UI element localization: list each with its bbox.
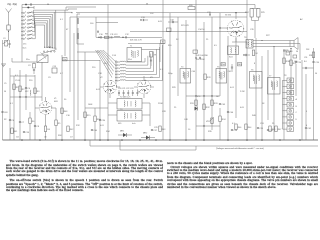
resistor R45 chassis row bbox=[269, 126, 271, 132]
svg-text:T8: T8 bbox=[244, 37, 247, 39]
wire aerial downlead bbox=[3, 34, 9, 44]
svg-text:MR2: MR2 bbox=[143, 133, 148, 135]
svg-text:50: 50 bbox=[4, 91, 6, 93]
resistor R26 bbox=[252, 50, 254, 56]
svg-text:C45: C45 bbox=[222, 104, 227, 106]
resistor R2 bbox=[19, 86, 21, 92]
wire v-left2 bbox=[13, 76, 15, 140]
coil L23 osc row bbox=[115, 71, 116, 72]
diode MR2 bbox=[146, 136, 150, 140]
svg-text:100: 100 bbox=[90, 23, 94, 25]
svg-text:1M: 1M bbox=[216, 96, 219, 98]
diode MR3 bbox=[195, 107, 198, 111]
svg-text:0.05: 0.05 bbox=[240, 107, 245, 109]
svg-text:C5 01: C5 01 bbox=[15, 80, 21, 82]
resistor R41 chassis row bbox=[11, 128, 13, 134]
wire V4 cathode bbox=[235, 37, 237, 42]
IF transformer T5 bbox=[216, 69, 227, 84]
svg-text:0.05: 0.05 bbox=[16, 137, 19, 139]
svg-text:C8: C8 bbox=[37, 126, 40, 128]
svg-text:C12: C12 bbox=[125, 34, 130, 36]
svg-text:465: 465 bbox=[118, 123, 122, 125]
svg-text:R3: R3 bbox=[37, 91, 40, 93]
svg-text:6K8: 6K8 bbox=[54, 101, 58, 103]
wire v-284 bbox=[283, 50, 285, 140]
wire v-left3 bbox=[19, 70, 21, 140]
svg-text:C16: C16 bbox=[66, 115, 71, 117]
voltage square 250 bbox=[221, 63, 225, 66]
coil L13 bbox=[114, 36, 120, 37]
svg-text:R12: R12 bbox=[76, 125, 81, 127]
capacitor C32 bbox=[172, 21, 174, 23]
coil L20 osc row bbox=[115, 61, 116, 62]
wire v-100 bbox=[99, 60, 101, 140]
junction on chassis 0 bbox=[21, 139, 23, 141]
svg-text:VR1: VR1 bbox=[206, 121, 211, 123]
svg-text:R15: R15 bbox=[87, 115, 92, 117]
junction on chassis 14 bbox=[261, 139, 263, 141]
capacitor C63 left border bbox=[1, 111, 3, 113]
svg-text:R25: R25 bbox=[261, 12, 266, 14]
svg-text:C53: C53 bbox=[260, 123, 265, 125]
svg-text:S1a: S1a bbox=[26, 59, 30, 61]
wire h-42b bbox=[246, 42, 248, 45]
svg-text:R4: R4 bbox=[47, 129, 50, 131]
capacitor C46 bbox=[227, 111, 229, 113]
svg-text:25: 25 bbox=[174, 107, 177, 109]
capacitor C14 bbox=[150, 59, 152, 61]
resistor R43 chassis row bbox=[159, 126, 161, 132]
choke box under V4 bbox=[228, 46, 239, 55]
svg-text:C42 100 R30: C42 100 R30 bbox=[196, 55, 209, 57]
capacitor C50 bbox=[295, 61, 297, 63]
wire V4 grid bbox=[220, 27, 227, 29]
svg-text:R46: R46 bbox=[238, 127, 241, 129]
coil L5 row bbox=[21, 27, 22, 28]
capacitor C10 bbox=[98, 37, 99, 38]
wire v-160 bbox=[159, 43, 161, 49]
wire grid rail bbox=[96, 22, 118, 24]
svg-text:R24: R24 bbox=[245, 12, 250, 14]
svg-text:C2: C2 bbox=[28, 65, 31, 67]
resistor R28 between cans bbox=[204, 74, 206, 80]
svg-text:0.1: 0.1 bbox=[15, 75, 18, 77]
svg-text:C61: C61 bbox=[270, 130, 273, 132]
wire h-108b bbox=[85, 107, 108, 109]
svg-text:C51: C51 bbox=[304, 57, 307, 59]
coil L22 osc row bbox=[115, 68, 116, 69]
wire v-212 bbox=[211, 17, 213, 130]
svg-text:R47: R47 bbox=[278, 129, 281, 131]
svg-text:AC: AC bbox=[300, 18, 303, 21]
svg-text:S1b: S1b bbox=[63, 59, 66, 61]
resistor R24 bbox=[250, 9, 253, 18]
capacitor C58 chassis row bbox=[231, 129, 233, 131]
wire V4 anode bbox=[235, 13, 237, 19]
svg-text:6: 6 bbox=[25, 26, 26, 28]
svg-text:2.2M: 2.2M bbox=[240, 91, 245, 93]
svg-text:C33: C33 bbox=[207, 12, 212, 14]
wire v-163 bbox=[162, 0, 164, 140]
svg-text:T2 465 kc/s: T2 465 kc/s bbox=[120, 97, 130, 99]
svg-text:kc/s: kc/s bbox=[132, 123, 136, 125]
capacitor C19 box bbox=[52, 68, 57, 73]
wire HT rail 2 bbox=[76, 12, 247, 14]
svg-text:12K: 12K bbox=[44, 137, 47, 139]
svg-text:R32: R32 bbox=[206, 107, 211, 109]
svg-text:R43: R43 bbox=[162, 129, 165, 131]
svg-text:100p: 100p bbox=[168, 73, 173, 75]
wire opt out 3 bbox=[253, 46, 290, 48]
svg-text:C5: C5 bbox=[4, 83, 6, 85]
wire v-204 bbox=[203, 22, 205, 140]
wire v-236 bbox=[235, 38, 237, 118]
svg-text:V4 6V6: V4 6V6 bbox=[225, 15, 231, 17]
svg-text:49 m: 49 m bbox=[23, 44, 27, 46]
antenna AE bbox=[6, 9, 12, 13]
coil L21 osc row bbox=[115, 65, 116, 66]
svg-text:25K: 25K bbox=[306, 49, 310, 51]
svg-text:C35: C35 bbox=[250, 29, 255, 31]
terminal strip TS1 bbox=[287, 78, 294, 83]
wire row2 continue bbox=[54, 11, 72, 14]
wire v-268 bbox=[267, 50, 269, 120]
wire top HT bus bbox=[22, 4, 255, 6]
svg-text:R39: R39 bbox=[285, 50, 288, 52]
resistor R37 bbox=[290, 60, 292, 66]
svg-text:6J8 220 4.7K: 6J8 220 4.7K bbox=[130, 40, 142, 42]
wire chassis drop a bbox=[89, 140, 91, 146]
svg-text:C50: C50 bbox=[298, 62, 303, 64]
svg-text:1.5K: 1.5K bbox=[112, 55, 117, 57]
resistor R16 bbox=[94, 116, 96, 122]
resistor R25 bbox=[257, 9, 260, 18]
svg-text:R20: R20 bbox=[189, 5, 194, 7]
junction on chassis 15 bbox=[279, 139, 281, 141]
svg-text:C18: C18 bbox=[98, 73, 103, 75]
svg-text:C10: C10 bbox=[99, 34, 104, 36]
svg-text:S2d: S2d bbox=[229, 57, 232, 59]
wire v-left6 bbox=[41, 62, 43, 101]
svg-text:220K: 220K bbox=[158, 103, 163, 105]
junction on chassis 8 bbox=[155, 139, 157, 141]
svg-text:C4: C4 bbox=[28, 88, 31, 90]
capacitor C62 chassis row bbox=[305, 127, 307, 129]
wire opt out 1 bbox=[253, 40, 290, 42]
junction on chassis 6 bbox=[121, 139, 123, 141]
svg-text:C30: C30 bbox=[102, 120, 107, 122]
svg-text:S2: S2 bbox=[176, 39, 179, 41]
svg-text:22K: 22K bbox=[150, 13, 154, 15]
svg-text:S2c 220K: S2c 220K bbox=[196, 59, 205, 61]
capacitor C56 chassis row bbox=[23, 131, 25, 133]
wire T1 out bbox=[142, 49, 161, 51]
resistor R3 bbox=[34, 88, 36, 94]
valve V2 bbox=[104, 81, 117, 94]
wire osc fan bbox=[103, 50, 116, 62]
wire v-74 bbox=[73, 33, 75, 140]
valve V4 bbox=[227, 20, 243, 36]
junction on chassis 10 bbox=[185, 139, 187, 141]
svg-text:C40: C40 bbox=[192, 71, 195, 73]
trimmer row1 bbox=[97, 31, 99, 33]
switch wafer S1b contacts bbox=[43, 51, 44, 52]
wire h-60 bbox=[62, 60, 100, 62]
coil L8 row bbox=[21, 38, 22, 39]
svg-text:9: 9 bbox=[25, 37, 26, 39]
svg-text:(Voltages measured with Avomet: (Voltages measured with Avometer model 7… bbox=[216, 147, 264, 150]
wire right border bbox=[313, 48, 315, 140]
IF transformer T2 bbox=[117, 99, 142, 110]
svg-text:47: 47 bbox=[66, 29, 69, 31]
svg-text:R31: R31 bbox=[190, 103, 195, 105]
svg-text:R14: R14 bbox=[106, 131, 111, 133]
resistor R32 bbox=[203, 104, 205, 110]
capacitor C11 bbox=[110, 36, 112, 38]
resistor R36 bbox=[283, 58, 285, 64]
junction on chassis 7 bbox=[139, 139, 141, 141]
resistor R5 bbox=[55, 120, 57, 126]
svg-text:R21 47K: R21 47K bbox=[181, 25, 189, 27]
capacitor C36 bbox=[243, 54, 244, 55]
junction on chassis 11 bbox=[203, 139, 205, 141]
resistor R15 bbox=[84, 112, 86, 118]
resistor R42 chassis row bbox=[67, 126, 69, 132]
IF transformer T3 bbox=[117, 111, 142, 122]
svg-text:C13: C13 bbox=[141, 17, 146, 19]
valve V1 bbox=[39, 102, 52, 115]
wire v-256 bbox=[255, 38, 257, 140]
capacitor C59 chassis row bbox=[257, 127, 259, 129]
junction on chassis 4 bbox=[99, 139, 101, 141]
wire AGC rail bbox=[70, 16, 247, 18]
capacitor C61 chassis row bbox=[267, 129, 269, 131]
wire HT feed mid bbox=[130, 31, 247, 33]
svg-text:R2: R2 bbox=[4, 119, 6, 121]
svg-text:0.1: 0.1 bbox=[10, 103, 14, 105]
wire v-70 bbox=[69, 17, 71, 92]
svg-text:S1b: S1b bbox=[48, 47, 51, 49]
svg-text:2: 2 bbox=[25, 12, 26, 14]
svg-text:C17: C17 bbox=[70, 137, 73, 139]
junction m1 bbox=[122, 37, 123, 38]
junction on chassis 1 bbox=[39, 139, 41, 141]
svg-text:C34 50: C34 50 bbox=[198, 29, 205, 31]
capacitor C57 chassis row bbox=[151, 129, 153, 131]
wire top link y7 bbox=[66, 6, 96, 8]
wire can links bbox=[108, 102, 117, 104]
svg-text:8.0: 8.0 bbox=[304, 61, 307, 63]
svg-text:50: 50 bbox=[64, 99, 67, 101]
svg-text:5: 5 bbox=[306, 111, 308, 113]
svg-text:D: D bbox=[296, 119, 298, 121]
volume control VR1 bbox=[211, 118, 213, 124]
svg-text:C20 C21 C22 C23: C20 C21 C22 C23 bbox=[118, 88, 133, 90]
wire v-228 bbox=[227, 36, 229, 140]
junction on chassis 5 bbox=[107, 139, 109, 141]
output transformer T8 bbox=[246, 40, 253, 49]
junction on chassis 3 bbox=[84, 139, 86, 141]
wire V1 pin d bbox=[52, 107, 56, 109]
wire V1 pin a bbox=[45, 97, 47, 102]
svg-text:R41: R41 bbox=[14, 131, 17, 133]
earth symbol E1 bbox=[1, 63, 6, 65]
voltage square 245 bbox=[238, 63, 242, 66]
coil L1 row bbox=[21, 12, 22, 13]
text column left bbox=[6, 160, 163, 193]
wire S1a stem bbox=[21, 5, 23, 63]
svg-text:R28: R28 bbox=[207, 77, 212, 79]
svg-text:C6: C6 bbox=[12, 120, 15, 122]
resistor R47 chassis row bbox=[275, 126, 277, 132]
svg-text:T5: T5 bbox=[217, 67, 220, 69]
resistor R38 on border bbox=[312, 52, 314, 58]
capacitor C4 bbox=[25, 87, 27, 89]
resistor R1 bbox=[13, 84, 15, 90]
svg-text:C: C bbox=[296, 112, 298, 114]
svg-text:C58: C58 bbox=[234, 130, 237, 132]
IF transformer T4 bbox=[180, 69, 191, 84]
coil L10 rf choke bbox=[76, 14, 78, 44]
wire x65 drop bbox=[64, 10, 66, 56]
wire v-196 bbox=[195, 0, 197, 140]
wire V2 pins bbox=[109, 94, 111, 99]
svg-text:R33: R33 bbox=[214, 103, 219, 105]
wire mixer rail bbox=[96, 36, 162, 38]
capacitor C45 bbox=[219, 103, 221, 105]
capacitor C52 bbox=[305, 67, 307, 69]
diode MR1 bbox=[123, 133, 127, 137]
svg-text:R42: R42 bbox=[70, 129, 73, 131]
resistor R44 chassis row bbox=[245, 124, 247, 130]
resistor R4 bbox=[44, 126, 46, 132]
wire v-291 bbox=[290, 48, 292, 96]
svg-text:T7: T7 bbox=[269, 76, 272, 78]
junction on chassis 13 bbox=[246, 139, 248, 141]
svg-text:6: 6 bbox=[306, 125, 308, 127]
wire v-left5 bbox=[34, 75, 36, 140]
svg-text:Gram: Gram bbox=[23, 47, 28, 50]
svg-text:C46: C46 bbox=[230, 112, 235, 114]
svg-text:10: 10 bbox=[188, 129, 191, 131]
small box S2b bbox=[167, 28, 172, 31]
svg-text:C59: C59 bbox=[260, 128, 263, 130]
wire return link bbox=[195, 146, 197, 150]
capacitor C6 bbox=[9, 119, 11, 121]
IF transformer T7 bbox=[268, 78, 281, 95]
svg-text:C9: C9 bbox=[48, 77, 51, 79]
wire v-186 bbox=[185, 20, 187, 140]
wire link h96 bbox=[10, 96, 42, 98]
svg-text:36: 36 bbox=[146, 3, 148, 5]
coil L12 bbox=[29, 90, 32, 95]
wire v-296b bbox=[295, 64, 297, 96]
svg-text:390: 390 bbox=[168, 45, 172, 47]
wire v-306b bbox=[305, 74, 307, 124]
capacitor C7 bbox=[19, 121, 21, 123]
wire v-left1 bbox=[9, 68, 11, 140]
wire chassis bus bbox=[3, 139, 319, 141]
coil L4 row bbox=[21, 23, 22, 24]
wire osc rail bbox=[128, 42, 165, 44]
svg-text:S1d: S1d bbox=[128, 59, 132, 61]
capacitor C33 bbox=[209, 13, 211, 15]
svg-text:36: 36 bbox=[47, 4, 49, 6]
small box top mid bbox=[193, 50, 198, 53]
svg-text:L12: L12 bbox=[25, 91, 29, 93]
svg-text:V1: V1 bbox=[54, 98, 57, 100]
junction on chassis 9 bbox=[169, 139, 171, 141]
resistor R8 bbox=[105, 36, 110, 38]
svg-text:0.01: 0.01 bbox=[100, 125, 104, 127]
wire v-170 bbox=[169, 13, 171, 140]
capacitor C60 chassis row bbox=[91, 129, 93, 131]
resistor R6 bbox=[29, 118, 31, 124]
trimmer bank C20-C24 bbox=[118, 92, 120, 94]
aerial cluster bbox=[5, 41, 8, 47]
wire v-274 bbox=[273, 47, 275, 141]
junction on chassis 12 bbox=[227, 139, 229, 141]
wire h-126 bbox=[196, 125, 220, 127]
svg-text:R34: R34 bbox=[222, 119, 227, 121]
small box S2a bbox=[161, 40, 166, 43]
svg-text:R29: R29 bbox=[172, 87, 177, 89]
IF transformer T6 bbox=[250, 72, 263, 89]
speaker LS1 bbox=[290, 41, 294, 47]
svg-text:4: 4 bbox=[25, 19, 26, 21]
svg-text:T8: T8 bbox=[284, 75, 287, 77]
svg-text:50: 50 bbox=[296, 51, 298, 53]
wire opt out 2 bbox=[253, 43, 300, 45]
switch S1b label bbox=[63, 58, 68, 61]
svg-text:C7: C7 bbox=[22, 122, 25, 124]
wire v-300 top bbox=[299, 44, 301, 61]
svg-text:R5: R5 bbox=[58, 123, 61, 125]
coil L6 row bbox=[21, 31, 22, 32]
capacitor C12 bbox=[125, 36, 127, 38]
wire osc stem bbox=[115, 60, 117, 84]
wire lower return 2 bbox=[120, 149, 196, 151]
svg-text:5: 5 bbox=[25, 23, 26, 25]
coil L24 osc row bbox=[115, 74, 116, 75]
coil L7 row bbox=[21, 35, 22, 36]
svg-text:R35: R35 bbox=[208, 131, 213, 133]
svg-text:Fig. 3(a): Fig. 3(a) bbox=[8, 3, 17, 6]
right cluster boxes bbox=[286, 52, 290, 55]
capacitor C13 bbox=[140, 19, 141, 20]
wire v-220 bbox=[219, 13, 221, 96]
svg-text:0.01: 0.01 bbox=[230, 87, 235, 89]
svg-text:0.5: 0.5 bbox=[214, 45, 218, 47]
svg-text:S1c: S1c bbox=[104, 63, 107, 65]
wire v-left4 bbox=[25, 74, 27, 110]
coil L26 osc row bbox=[115, 80, 116, 81]
wire left border bbox=[2, 40, 4, 140]
svg-text:V2: V2 bbox=[100, 77, 103, 79]
wire v-178 bbox=[177, 17, 179, 96]
svg-text:C55: C55 bbox=[294, 61, 297, 63]
resistor R31 bbox=[195, 100, 197, 106]
svg-text:C3: C3 bbox=[3, 38, 5, 40]
svg-text:C57: C57 bbox=[154, 130, 157, 132]
svg-text:R48: R48 bbox=[64, 111, 67, 113]
svg-text:C63: C63 bbox=[4, 112, 7, 114]
svg-text:100K: 100K bbox=[88, 104, 93, 106]
capacitor C43 bbox=[199, 57, 201, 59]
capacitor C30 bbox=[99, 119, 101, 121]
wire h-52 bbox=[77, 51, 100, 53]
svg-text:C62: C62 bbox=[308, 128, 311, 130]
